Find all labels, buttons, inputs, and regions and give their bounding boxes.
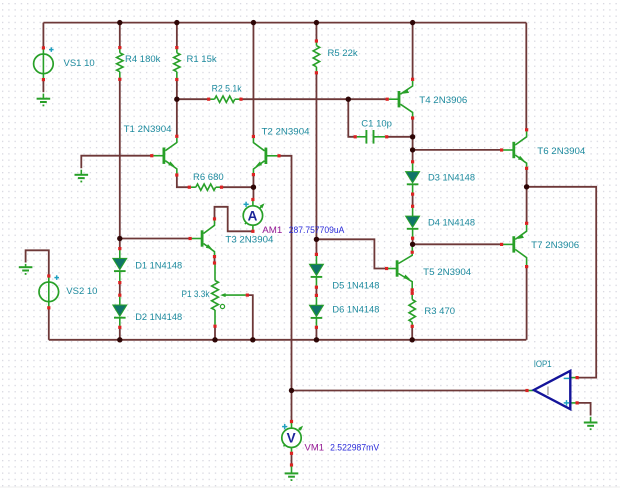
wire VS1 to ground	[42, 80, 44, 93]
svg-text:P1 3.3k: P1 3.3k	[182, 289, 210, 300]
svg-text:T7 2N3906: T7 2N3906	[531, 240, 579, 251]
svg-text:T2 2N3904: T2 2N3904	[262, 126, 310, 137]
svg-text:I: I	[546, 386, 549, 398]
svg-text:287.757709uA: 287.757709uA	[289, 225, 345, 235]
node rail-T4em	[410, 20, 415, 25]
voltage source VS1	[34, 46, 54, 81]
node rail-R1	[174, 20, 179, 25]
wire T7 collector to bus	[526, 267, 528, 340]
svg-text:VS2 10: VS2 10	[66, 286, 97, 297]
svg-text:AM1: AM1	[262, 225, 282, 235]
svg-text:IOP1: IOP1	[534, 359, 552, 369]
transistor T6	[500, 128, 528, 170]
wire VS2 bottom to bus	[48, 308, 50, 340]
svg-text:T4 2N3906: T4 2N3906	[419, 95, 467, 106]
wire T3 base	[120, 238, 190, 240]
wire R4 top	[119, 23, 121, 48]
svg-text:R6 680: R6 680	[193, 172, 224, 183]
wire T4 emitter to rail	[412, 23, 414, 80]
wire T6 collector to rail	[525, 23, 527, 130]
node bus-R3	[410, 337, 415, 342]
transistor T1	[150, 135, 178, 177]
wire C1 branch	[348, 99, 355, 137]
wire opamp plus to ground	[577, 403, 591, 416]
wire T5 emitter to R3	[411, 290, 413, 293]
svg-text:D2 1N4148: D2 1N4148	[135, 312, 182, 323]
node bus-P1b	[212, 337, 217, 342]
resistor R1	[174, 46, 180, 81]
potentiometer P1	[212, 264, 246, 324]
svg-text:T6 2N3904: T6 2N3904	[537, 146, 585, 157]
ground below VM1	[285, 466, 299, 480]
wire D3-D4	[412, 194, 414, 206]
wire T7 base	[413, 243, 502, 245]
svg-text:D5 1N4148: D5 1N4148	[332, 280, 379, 291]
svg-text:T5 2N3904: T5 2N3904	[423, 267, 471, 278]
wire D2 to bus	[119, 327, 121, 340]
wire T3 emitter to P1	[214, 257, 216, 263]
wire VS2 top to ground	[26, 250, 49, 276]
node T6em-T7em	[524, 184, 529, 189]
svg-text:R1 15k: R1 15k	[187, 54, 217, 65]
node T2em-R6-AM1	[251, 185, 256, 190]
svg-text:VS1 10: VS1 10	[64, 58, 95, 69]
ground at IOP1	[584, 417, 598, 429]
wire node to VM1	[291, 391, 293, 422]
wire T6 emitter to T7	[526, 168, 528, 223]
node R1-R2-T1col	[174, 97, 179, 102]
node R2-C1-T4base	[346, 97, 351, 102]
node bus-D6	[314, 337, 319, 342]
svg-text:2.522987mV: 2.522987mV	[330, 443, 380, 453]
svg-text:C1 10p: C1 10p	[361, 118, 392, 129]
wire P1 wiper to bus	[247, 295, 253, 340]
transistor T4	[386, 78, 415, 120]
svg-text:VM1: VM1	[305, 443, 325, 453]
wire VM1 to ground	[291, 453, 293, 465]
resistor R4	[117, 46, 123, 81]
ground below VS1	[37, 94, 51, 106]
wire node1 to R2	[177, 98, 209, 100]
node rail-R5	[314, 20, 319, 25]
svg-text:D4 1N4148: D4 1N4148	[428, 217, 475, 228]
transistor T3	[189, 217, 217, 258]
wire top rail	[43, 22, 526, 24]
diode D5	[309, 253, 323, 289]
resistor R5	[313, 39, 319, 74]
wire bottom bus	[49, 339, 527, 341]
wire R1 top	[176, 23, 178, 48]
node bus-D2	[117, 337, 122, 342]
svg-text:T3 2N3904: T3 2N3904	[225, 235, 273, 246]
voltage source VS2	[39, 274, 59, 309]
resistor R6	[188, 184, 223, 190]
wire T2 emitter to AM1	[252, 175, 254, 200]
svg-text:T1 2N3904: T1 2N3904	[124, 124, 172, 135]
wire T3 collector to AM1	[215, 207, 253, 232]
resistor R2	[207, 96, 242, 102]
wire T2 base down	[279, 156, 292, 391]
node R4-D1-T3base	[117, 236, 122, 241]
wire C1 to T4 collector	[387, 136, 413, 138]
wire R5 top	[315, 23, 317, 41]
wire R6 to node	[222, 186, 254, 188]
resistor R3	[409, 292, 415, 328]
wire T5 base route	[316, 239, 386, 268]
diode D6	[309, 294, 323, 329]
diode D3	[406, 160, 420, 196]
node T4col-C1	[410, 134, 415, 139]
svg-text:R5 22k: R5 22k	[328, 48, 358, 59]
terminal VM1 ground	[290, 463, 293, 466]
svg-text:R3 470: R3 470	[424, 306, 455, 317]
wire D5-D6	[315, 287, 317, 295]
wire T1 emitter to R6	[177, 175, 189, 187]
node T4col-T6base	[410, 147, 415, 152]
diode D1	[113, 247, 127, 284]
ground at T1 base	[75, 170, 89, 182]
wire T1 collector	[176, 99, 178, 136]
diode D4	[406, 205, 420, 240]
node D4-T5col-T7base	[410, 242, 415, 247]
ammeter AM1	[243, 198, 264, 233]
transistor T5	[385, 245, 414, 291]
transistor T2	[252, 135, 281, 176]
wire T6 base	[413, 149, 502, 151]
svg-text:V: V	[287, 431, 296, 446]
wire opamp output	[292, 390, 528, 392]
wire R5 bottom long	[315, 73, 317, 255]
wire D6 to bus	[315, 327, 317, 340]
svg-text:D1 1N4148: D1 1N4148	[135, 260, 182, 271]
wire node to opamp minus	[527, 187, 597, 378]
wire T2 collector line	[252, 23, 254, 137]
wire D4 to node	[412, 238, 414, 244]
capacitor C1	[357, 130, 386, 144]
voltmeter VM1	[282, 420, 303, 455]
wire T1 base to ground	[81, 156, 152, 169]
wire R1 bottom	[176, 80, 178, 100]
svg-text:R4 180k: R4 180k	[125, 54, 161, 65]
node R5-T5base	[314, 237, 319, 242]
node bus-P1w	[250, 337, 255, 342]
wire D1-D2	[119, 283, 121, 296]
node rail-T2col	[251, 20, 256, 25]
wire T4 collector down	[412, 118, 414, 162]
node rail-R4	[117, 20, 122, 25]
svg-text:R2 5.1k: R2 5.1k	[212, 84, 242, 95]
svg-text:D6 1N4148: D6 1N4148	[332, 305, 379, 316]
wire R2 to T4 base	[241, 98, 387, 100]
svg-text:A: A	[248, 208, 258, 223]
svg-text:D3 1N4148: D3 1N4148	[428, 172, 475, 183]
node out-VM1	[289, 388, 294, 393]
wire R4 bottom to D1	[119, 79, 121, 248]
transistor T7	[500, 222, 528, 269]
wire VS1 to rail	[42, 23, 44, 48]
diode D2	[113, 294, 127, 329]
op-amp IOP1	[528, 371, 575, 409]
wire R3 to bus	[411, 326, 413, 340]
wire P1 bottom to bus	[214, 326, 216, 340]
ground at VS2	[19, 264, 33, 274]
